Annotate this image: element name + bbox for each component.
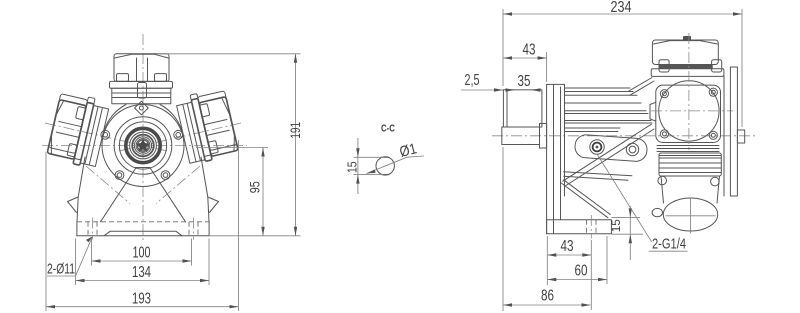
section shaft circle xyxy=(376,157,394,175)
vertical center line xyxy=(142,34,144,243)
svg-text:C-C: C-C xyxy=(381,123,395,135)
shaft center line xyxy=(492,135,757,137)
svg-text:35: 35 xyxy=(518,73,531,90)
svg-text:43: 43 xyxy=(561,238,574,255)
right cylinder assembly xyxy=(175,87,239,165)
fins between heads xyxy=(657,145,719,147)
dim 15 vertical xyxy=(357,138,359,194)
diagonal strut xyxy=(563,124,651,181)
cover bolt lugs xyxy=(659,60,669,72)
ext 43 right xyxy=(546,52,548,82)
dim 95 xyxy=(262,148,264,236)
svg-text:193: 193 xyxy=(132,291,151,308)
ext line center height (95) xyxy=(196,147,268,149)
body front face xyxy=(560,87,562,220)
svg-text:15: 15 xyxy=(346,162,360,174)
cylinder block xyxy=(112,88,171,104)
skirt left outline xyxy=(77,157,85,222)
dim 86 xyxy=(503,304,591,306)
flat bottom chord xyxy=(382,174,390,176)
mounting flange plate xyxy=(546,84,548,233)
right foot hole xyxy=(188,222,190,236)
boss G1/4 port xyxy=(590,140,604,154)
ext 234 right xyxy=(741,9,743,127)
intake wedge left of head xyxy=(650,102,656,121)
bearing cover circles xyxy=(114,117,172,175)
ext 43b/60 left xyxy=(546,236,548,285)
base bottom recess xyxy=(104,231,182,236)
head bolts xyxy=(660,90,668,98)
svg-text:100: 100 xyxy=(133,245,151,262)
label 2-G1/4 xyxy=(597,154,652,242)
ext lines for 15 xyxy=(354,156,384,158)
svg-text:134: 134 xyxy=(132,264,151,281)
bolt upper-right xyxy=(174,130,183,139)
top valve cover xyxy=(652,40,718,65)
shaft spline center xyxy=(137,140,148,151)
dim 100 xyxy=(92,260,192,262)
bolt lower-right xyxy=(161,171,170,180)
dim 191 xyxy=(295,54,297,236)
dim 43 top xyxy=(503,57,547,59)
svg-text:191: 191 xyxy=(288,122,303,139)
top cylinder assembly xyxy=(110,54,173,104)
body bottom edge xyxy=(564,172,632,176)
dim 35 xyxy=(506,89,541,91)
ext line 100 right xyxy=(191,239,193,266)
ext 43b right (hole center) xyxy=(590,240,592,310)
dim 193 xyxy=(46,306,239,308)
bolt lower-left xyxy=(115,171,124,180)
dim 234 xyxy=(503,13,742,15)
svg-text:234: 234 xyxy=(611,0,632,16)
rear tab xyxy=(737,130,744,143)
boss 2 xyxy=(626,143,638,155)
flat top chord xyxy=(382,156,390,158)
valve cover xyxy=(114,54,169,82)
bolt upper-left xyxy=(101,130,110,139)
ext line 134 left xyxy=(75,239,77,286)
horizontal center line xyxy=(42,145,247,147)
svg-text:60: 60 xyxy=(575,263,588,280)
bottom head pot (ellipse) xyxy=(663,198,717,231)
ext line 134 right xyxy=(208,239,210,286)
svg-text:2-Ø11: 2-Ø11 xyxy=(47,261,75,278)
top transition diagonal xyxy=(628,78,652,92)
ext line 100 left xyxy=(91,239,93,266)
ext line top (191) xyxy=(156,53,301,55)
ext line 193 left xyxy=(45,152,47,311)
pot side port bump xyxy=(652,208,662,216)
head bolt bumps xyxy=(117,74,129,82)
ext 234 left / 86 left xyxy=(502,9,504,86)
crankcase fins xyxy=(565,87,631,89)
dim 2,5 leader xyxy=(461,89,503,91)
head flange xyxy=(110,81,173,88)
ext line 193 right xyxy=(238,140,240,311)
spline dark ring xyxy=(126,128,160,162)
dim 60 xyxy=(547,279,607,281)
dim 134 xyxy=(76,280,210,282)
shaft block xyxy=(503,90,542,127)
left foot hole xyxy=(87,222,89,236)
head top plate xyxy=(651,69,724,77)
dim 43 bottom xyxy=(547,254,591,256)
pot sides xyxy=(661,176,664,203)
cover fitting xyxy=(683,36,691,41)
unloader tube xyxy=(138,83,147,99)
leader phi1 xyxy=(367,157,408,173)
breather diamond xyxy=(135,101,149,115)
foot gusset strut xyxy=(561,183,608,218)
base block xyxy=(76,222,78,236)
skirt inner slants xyxy=(101,169,136,222)
head center lines xyxy=(651,110,733,112)
left pointed corner xyxy=(68,197,79,213)
ext line base bottom xyxy=(209,235,300,237)
top head circle xyxy=(659,81,719,141)
skirt right outline xyxy=(201,157,209,222)
svg-text:86: 86 xyxy=(541,288,554,305)
svg-text:15: 15 xyxy=(609,219,623,232)
rear plate xyxy=(723,76,725,196)
bracket arm xyxy=(574,134,647,162)
shaft xyxy=(502,127,540,145)
body outer rim arcs xyxy=(104,105,126,132)
block bolt bosses xyxy=(658,176,667,185)
right pointed corner xyxy=(208,197,219,213)
svg-text:2-G1/4: 2-G1/4 xyxy=(652,236,686,253)
base hidden top edge xyxy=(77,221,209,223)
foot xyxy=(547,220,612,234)
svg-text:43: 43 xyxy=(523,42,536,59)
right cylinder axis center line xyxy=(118,123,241,151)
top head square plate xyxy=(656,85,721,142)
left cylinder assembly xyxy=(46,91,110,169)
left cylinder axis center line xyxy=(45,123,168,151)
ext 60 right xyxy=(606,236,608,284)
pot center cross xyxy=(666,215,716,217)
crankcase body circle xyxy=(102,105,184,187)
bottom cylinder block xyxy=(659,153,721,176)
head gasket dark band xyxy=(659,65,713,69)
shaft collar xyxy=(540,124,547,149)
dim 15 foot xyxy=(611,216,640,218)
skirt hidden diagonals xyxy=(86,166,130,204)
svg-text:95: 95 xyxy=(246,181,262,193)
svg-text:2,5: 2,5 xyxy=(465,72,480,89)
